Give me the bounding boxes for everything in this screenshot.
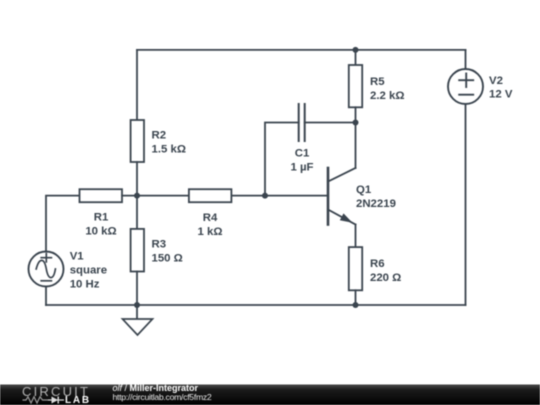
wire V1 bottom (45, 287, 47, 305)
voltage source V2 (448, 69, 483, 104)
wire R4 to base node (231, 195, 265, 197)
wire R2 top (136, 50, 138, 120)
resistor R4 (189, 189, 232, 202)
svg-text:10 Hz: 10 Hz (70, 279, 100, 291)
svg-text:C1: C1 (295, 148, 310, 160)
svg-text:1.5 kΩ: 1.5 kΩ (152, 144, 186, 156)
node R5 top (353, 47, 359, 53)
logo resistor squiggle (23, 397, 49, 403)
wire R3 bottom (136, 272, 138, 306)
svg-text:LAB: LAB (65, 395, 91, 405)
node base-C1 (262, 193, 268, 199)
svg-text:R5: R5 (370, 76, 385, 88)
wire top rail (137, 49, 466, 51)
svg-text:12 V: 12 V (489, 89, 513, 101)
svg-text:2N2219: 2N2219 (356, 198, 396, 210)
wire base node to Q1 base (265, 195, 328, 197)
wire emitter (355, 225, 357, 248)
svg-text:square: square (70, 265, 107, 277)
wire R5 top (355, 50, 357, 65)
wire V2 bottom (465, 104, 467, 305)
wire node to R4 (137, 195, 189, 197)
footer bar (0, 385, 540, 405)
ground (123, 319, 153, 335)
capacitor C1 (299, 104, 305, 141)
svg-text:Q1: Q1 (356, 184, 372, 196)
wire C1 left branch (265, 123, 299, 196)
wire R5 bottom (355, 107, 357, 122)
transistor Q1 (328, 168, 356, 225)
wire collector (355, 123, 357, 169)
wire R1 to node (122, 195, 137, 197)
svg-text:1 kΩ: 1 kΩ (198, 226, 223, 238)
resistor R5 (349, 65, 362, 107)
svg-text:R2: R2 (152, 130, 167, 142)
svg-text:1 µF: 1 µF (290, 162, 313, 174)
svg-text:2.2 kΩ: 2.2 kΩ (370, 90, 404, 102)
wire C1 right to collector node (305, 122, 356, 124)
svg-text:R1: R1 (94, 212, 109, 224)
node ground rail (134, 302, 140, 308)
wire R2 bottom (136, 162, 138, 196)
svg-text:10 kΩ: 10 kΩ (85, 226, 116, 238)
wire node to R3 (136, 196, 138, 229)
wire R6 bottom (355, 290, 357, 305)
resistor R3 (131, 229, 144, 272)
wire ground stub (136, 305, 138, 319)
resistor R2 (131, 120, 144, 162)
resistor R6 (349, 247, 362, 290)
svg-text:V2: V2 (489, 75, 503, 87)
voltage source V1 (29, 252, 64, 287)
node collector-C1 (353, 120, 359, 126)
wire left rail to R1 (46, 196, 80, 253)
svg-text:220 Ω: 220 Ω (370, 272, 401, 284)
wire bottom rail (46, 304, 466, 306)
svg-text:V1: V1 (70, 251, 85, 263)
node R1-R2-R3-R4 (134, 193, 140, 199)
svg-text:http://circuitlab.com/cf5fmz2: http://circuitlab.com/cf5fmz2 (113, 392, 212, 402)
resistor R1 (80, 189, 123, 202)
svg-text:R3: R3 (152, 239, 167, 251)
logo diode (48, 397, 64, 404)
svg-text:R6: R6 (370, 258, 385, 270)
node R6 rail (353, 302, 359, 308)
svg-text:150 Ω: 150 Ω (152, 253, 183, 265)
wire V2 top (465, 50, 467, 69)
svg-text:R4: R4 (203, 212, 218, 224)
